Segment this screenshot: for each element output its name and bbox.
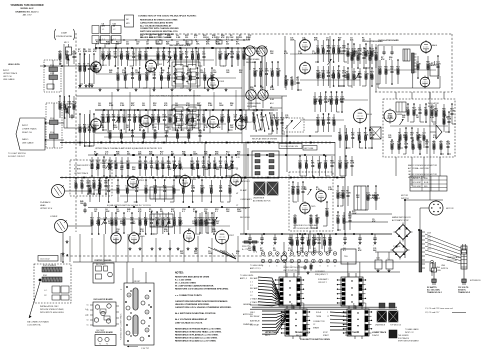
svg-text:INSTALLATION ONLY: INSTALLATION ONLY bbox=[40, 305, 59, 308]
svg-text:4.7K: 4.7K bbox=[397, 143, 402, 146]
svg-text:MODEL 64 X: MODEL 64 X bbox=[21, 7, 35, 10]
svg-text:100K: 100K bbox=[219, 105, 224, 107]
stage components: line amp cluster right bbox=[313, 91, 345, 132]
svg-text:330: 330 bbox=[348, 218, 351, 220]
svg-text:SELECTOR: SELECTOR bbox=[447, 260, 457, 262]
svg-text:UNDERSIDE: UNDERSIDE bbox=[375, 325, 386, 327]
svg-text:2.2M: 2.2M bbox=[83, 51, 88, 53]
svg-text:INPUT C#2: INPUT C#2 bbox=[405, 332, 414, 334]
svg-text:REC 2: REC 2 bbox=[296, 335, 301, 337]
wire: right vertical x242 bbox=[241, 48, 243, 142]
stage components: indicator right parts bbox=[442, 111, 452, 133]
svg-text:R104: R104 bbox=[50, 132, 54, 134]
input attenuator dashed box upper with resistors R101 R102 bbox=[44, 60, 61, 92]
svg-text:1M: 1M bbox=[74, 183, 77, 185]
harness fan into switch PB4 bbox=[330, 312, 347, 330]
svg-text:0.1: 0.1 bbox=[127, 211, 130, 213]
svg-text:1: 1 bbox=[327, 312, 328, 314]
svg-text:0.1: 0.1 bbox=[226, 39, 229, 41]
svg-text:1M: 1M bbox=[173, 163, 176, 165]
stage components: upper record amp stage 3 bbox=[156, 47, 205, 67]
svg-text:0.1: 0.1 bbox=[340, 197, 343, 199]
svg-text:4.7K: 4.7K bbox=[390, 143, 395, 146]
front lever switch assembly box bbox=[121, 262, 154, 350]
svg-text:REC/PLAY SWITCH SHOWN: REC/PLAY SWITCH SHOWN bbox=[252, 138, 278, 141]
wire: oscillator verticals 2 bbox=[352, 40, 376, 92]
tube V206 lower playback amp bbox=[183, 229, 200, 243]
svg-text:330: 330 bbox=[144, 169, 147, 171]
svg-text:100K: 100K bbox=[315, 218, 320, 220]
record head upper track bbox=[246, 46, 267, 64]
svg-text:220: 220 bbox=[138, 54, 141, 56]
svg-text:100K: 100K bbox=[105, 211, 110, 213]
svg-text:1M: 1M bbox=[338, 40, 341, 42]
svg-text:POWER SUPPLY: POWER SUPPLY bbox=[74, 165, 91, 167]
svg-text:EXTENSION: EXTENSION bbox=[470, 280, 481, 282]
svg-text:0.1: 0.1 bbox=[105, 154, 108, 156]
tube V303 line amplifier bbox=[354, 108, 373, 124]
svg-text:330: 330 bbox=[224, 54, 227, 56]
svg-text:GND 1: GND 1 bbox=[250, 312, 255, 314]
wire: osc board link downs bbox=[396, 92, 444, 99]
svg-text:2.2M: 2.2M bbox=[275, 120, 280, 122]
dashed box: power supply upper bbox=[70, 160, 112, 196]
svg-text:L 1: L 1 bbox=[102, 29, 104, 31]
svg-text:220: 220 bbox=[296, 240, 299, 242]
svg-text:R318 POS: R318 POS bbox=[242, 246, 251, 248]
svg-text:0.1: 0.1 bbox=[161, 72, 164, 74]
dashed box: FM stereo adapter connection bbox=[34, 264, 71, 303]
svg-text:330: 330 bbox=[226, 44, 229, 46]
svg-text:SHIFT SWITCH SEGMENT: SHIFT SWITCH SEGMENT bbox=[398, 341, 419, 343]
svg-text:2.2M: 2.2M bbox=[210, 75, 215, 77]
svg-text:2.2M: 2.2M bbox=[426, 64, 431, 66]
svg-text:EQUALIZATION SWITCH SHOWN IN 7: EQUALIZATION SWITCH SHOWN IN 7 1/2 POS. bbox=[107, 204, 152, 207]
svg-text:CIRCUIT 2: CIRCUIT 2 bbox=[318, 282, 327, 284]
switch contact ladder lower band bbox=[172, 105, 200, 128]
fuse: line fuse bbox=[430, 260, 442, 276]
tube V207 output bbox=[216, 229, 235, 245]
stage components: lower record amp stage 3 bbox=[151, 109, 205, 131]
svg-text:220: 220 bbox=[168, 169, 171, 171]
svg-text:0.1: 0.1 bbox=[180, 117, 183, 119]
svg-text:220: 220 bbox=[126, 188, 129, 190]
svg-text:100K: 100K bbox=[161, 220, 166, 222]
dashed outline: record board top edge bbox=[145, 34, 452, 92]
wire: record to head bus labels bbox=[206, 36, 251, 41]
tube V101 first record amplifier bbox=[91, 60, 108, 74]
svg-text:0.1: 0.1 bbox=[107, 188, 110, 190]
wire: assorted junction dots bbox=[95, 47, 420, 235]
svg-text:4.7K: 4.7K bbox=[284, 52, 289, 55]
svg-text:330: 330 bbox=[234, 117, 237, 119]
svg-text:220: 220 bbox=[149, 37, 152, 39]
label: lever switch tungsram position bbox=[283, 267, 307, 272]
svg-text:R502: R502 bbox=[43, 275, 47, 277]
svg-text:INPUT: INPUT bbox=[3, 70, 10, 72]
push button switch PB3 bbox=[281, 305, 310, 339]
svg-text:1M: 1M bbox=[230, 105, 233, 107]
caption: push button switch names bbox=[265, 331, 387, 341]
svg-text:0.1: 0.1 bbox=[194, 37, 197, 39]
voltage divider resistor chain bbox=[242, 241, 287, 261]
svg-text:2.2M: 2.2M bbox=[167, 37, 172, 39]
svg-text:330: 330 bbox=[126, 44, 129, 46]
switch contact ladder upper band bbox=[172, 62, 200, 86]
svg-text:220: 220 bbox=[228, 188, 231, 190]
switch wafer underside A bbox=[254, 182, 265, 195]
svg-text:REC AMP 2: REC AMP 2 bbox=[250, 287, 259, 290]
svg-text:MOTOR: MOTOR bbox=[446, 208, 454, 210]
svg-text:V206: V206 bbox=[195, 234, 201, 236]
svg-text:220: 220 bbox=[270, 120, 273, 122]
svg-text:EL84: EL84 bbox=[367, 114, 373, 116]
potentiometer: input level control bbox=[66, 103, 74, 128]
svg-text:LEFT LINE: LEFT LINE bbox=[304, 148, 314, 150]
label row: mid band extra values bbox=[96, 69, 242, 225]
svg-text:2.2M: 2.2M bbox=[122, 72, 127, 74]
notes side column bbox=[243, 303, 254, 326]
svg-text:PLAYBACK: PLAYBACK bbox=[40, 201, 51, 204]
wire: sub-rails playback bands bbox=[94, 163, 238, 226]
connector strip C1 pin circles row 1 bbox=[261, 252, 337, 256]
svg-text:RESISTORS INDICATED IN OHMS: RESISTORS INDICATED IN OHMS bbox=[175, 276, 210, 279]
stage components: upper record amp stage 2 bbox=[101, 47, 148, 67]
bus: harness to push-button switches (dashed) bbox=[62, 255, 310, 257]
svg-text:1M: 1M bbox=[416, 117, 419, 119]
svg-text:UPPER TRACK: UPPER TRACK bbox=[3, 72, 18, 75]
indicator triangle element bbox=[430, 125, 442, 139]
dashed board boundary vertical bbox=[75, 33, 77, 232]
svg-text:REC 1: REC 1 bbox=[265, 335, 270, 337]
svg-text:CAPACITORS INDICATED IN MICROM: CAPACITORS INDICATED IN MICROMICROFARADS bbox=[175, 300, 228, 303]
tube V105 lower record amplifier bbox=[140, 114, 157, 128]
label row: right mid extra values bbox=[292, 114, 449, 199]
svg-text:2.2M: 2.2M bbox=[276, 71, 281, 73]
svg-text:1M: 1M bbox=[410, 135, 413, 137]
svg-text:12: 12 bbox=[327, 316, 329, 318]
svg-text:4.7K: 4.7K bbox=[328, 100, 333, 103]
svg-text:1M: 1M bbox=[337, 73, 340, 75]
svg-text:UPPER TRACK: UPPER TRACK bbox=[345, 331, 359, 334]
svg-text:TO LINE LEVEL SW.: TO LINE LEVEL SW. bbox=[281, 146, 299, 148]
svg-text:1M: 1M bbox=[236, 54, 239, 56]
svg-text:330: 330 bbox=[273, 250, 276, 252]
svg-text:220: 220 bbox=[114, 220, 117, 222]
filter capacitor cans C111 C112 bbox=[375, 252, 405, 272]
stage components: below record level box bbox=[290, 233, 332, 253]
svg-text:220: 220 bbox=[102, 163, 105, 165]
bus: upper playback rail bbox=[88, 154, 335, 156]
svg-text:C3: C3 bbox=[146, 330, 148, 332]
svg-text:0.1: 0.1 bbox=[431, 65, 434, 67]
svg-text:4.7K: 4.7K bbox=[338, 162, 343, 165]
voltage selector tap fan bbox=[425, 233, 461, 265]
labels: cathode column bbox=[240, 180, 252, 219]
mains plug P2 extension bbox=[458, 244, 481, 294]
board label: oscillator board bbox=[378, 39, 399, 42]
stage components: right column parts bbox=[338, 127, 375, 176]
playback head lower track bbox=[50, 216, 68, 233]
wire: head leads bbox=[62, 191, 92, 263]
multiplex filter block grid bbox=[101, 15, 134, 48]
stage components: lower record amp stage 1 bbox=[78, 113, 96, 147]
svg-text:L 2: L 2 bbox=[113, 29, 115, 31]
svg-text:V207: V207 bbox=[229, 235, 235, 237]
tube V152 bias oscillator bbox=[420, 76, 430, 89]
svg-text:HIGH LEVEL: HIGH LEVEL bbox=[8, 64, 21, 66]
svg-text:1M: 1M bbox=[197, 117, 200, 119]
svg-text:100K: 100K bbox=[237, 211, 242, 213]
svg-text:FUSE AMP 1: FUSE AMP 1 bbox=[318, 278, 329, 281]
wire: mid vertical pair x244 x248 bbox=[236, 143, 248, 234]
svg-text:0.1: 0.1 bbox=[96, 44, 99, 46]
ground row: lower playback bbox=[129, 247, 198, 250]
wire: right vertical x=440 bbox=[439, 157, 441, 176]
svg-text:330: 330 bbox=[153, 105, 156, 107]
svg-text:100K: 100K bbox=[197, 105, 202, 107]
svg-text:0.1: 0.1 bbox=[63, 104, 66, 106]
svg-text:0.1: 0.1 bbox=[96, 163, 99, 165]
svg-text:LOWER AMPL: LOWER AMPL bbox=[240, 198, 252, 201]
svg-text:REC SOURCE IMP. 600 OHM: REC SOURCE IMP. 600 OHM bbox=[293, 228, 318, 230]
bias transformer T151 bbox=[403, 49, 410, 61]
svg-text:LINE CABLE: LINE CABLE bbox=[22, 142, 34, 145]
svg-text:RESISTANCE IN OHMS K=1000 OHMS: RESISTANCE IN OHMS K=1000 OHMS bbox=[140, 19, 178, 22]
svg-text:CATHODE 1: CATHODE 1 bbox=[240, 180, 250, 183]
svg-text:+ 25 V: + 25 V bbox=[292, 177, 298, 179]
svg-text:1M: 1M bbox=[292, 189, 295, 191]
svg-text:2.2M: 2.2M bbox=[193, 211, 198, 213]
svg-text:B+ CT8: B+ CT8 bbox=[242, 249, 248, 251]
svg-text:R102: R102 bbox=[50, 73, 54, 75]
svg-text:LOWER TRACK: LOWER TRACK bbox=[22, 128, 37, 131]
svg-text:ALL VOLTAGES MEASURED AT: ALL VOLTAGES MEASURED AT bbox=[140, 24, 172, 27]
wire: lower input feed bbox=[45, 122, 96, 141]
svg-text:MOTOR: MOTOR bbox=[401, 195, 409, 197]
svg-text:WITH INPUTS HIGH LEVEL: WITH INPUTS HIGH LEVEL bbox=[40, 312, 64, 314]
svg-text:SPARE: SPARE bbox=[313, 327, 320, 330]
svg-text:1M: 1M bbox=[80, 183, 83, 185]
svg-text:1M: 1M bbox=[162, 54, 165, 56]
erase head upper track bbox=[245, 46, 255, 56]
svg-text:100K: 100K bbox=[208, 253, 213, 255]
svg-text:0.1: 0.1 bbox=[296, 80, 299, 82]
labels: cutover frequency bbox=[315, 271, 329, 284]
svg-text:100K: 100K bbox=[220, 117, 225, 119]
svg-text:100K: 100K bbox=[256, 53, 261, 55]
svg-text:1M: 1M bbox=[136, 44, 139, 46]
svg-text:330: 330 bbox=[88, 51, 91, 53]
svg-text:4.7K: 4.7K bbox=[430, 116, 435, 119]
svg-text:C 1: C 1 bbox=[250, 281, 253, 283]
svg-text:220: 220 bbox=[202, 54, 205, 56]
svg-text:220: 220 bbox=[228, 169, 231, 171]
stage components: oscillator tank bbox=[315, 39, 347, 87]
wire: bottom harness vertical drops bbox=[70, 234, 238, 262]
svg-text:100K: 100K bbox=[253, 71, 258, 73]
svg-text:1M: 1M bbox=[140, 37, 143, 39]
svg-text:1M: 1M bbox=[219, 163, 222, 165]
svg-text:DRAWING NO. 65.37-1: DRAWING NO. 65.37-1 bbox=[15, 10, 39, 13]
svg-text:UPPER TRACK PLAYBACK AMPLIFIER: UPPER TRACK PLAYBACK AMPLIFIER EQUALIZAT… bbox=[95, 147, 163, 150]
svg-text:1M: 1M bbox=[113, 26, 116, 28]
svg-text:1M: 1M bbox=[316, 48, 319, 50]
svg-text:L 4: L 4 bbox=[250, 295, 252, 297]
svg-text:C4: C4 bbox=[128, 295, 130, 297]
label row: head area values bbox=[250, 86, 275, 91]
small boxes: record amp top trimmers bbox=[156, 40, 222, 44]
svg-text:EARLY SYNCHRONOUS MOTOR: EARLY SYNCHRONOUS MOTOR bbox=[408, 164, 438, 167]
svg-text:1M: 1M bbox=[94, 211, 97, 213]
svg-text:2-WAY: 2-WAY bbox=[61, 32, 68, 35]
wire: motor feed bbox=[405, 200, 443, 258]
svg-text:110V GREY: 110V GREY bbox=[412, 182, 422, 184]
svg-text:4.7K: 4.7K bbox=[164, 230, 169, 233]
svg-text:330: 330 bbox=[338, 135, 341, 137]
svg-text:UPPER TRACK: UPPER TRACK bbox=[74, 172, 89, 175]
labels: stop / connector c2 spare bbox=[313, 311, 329, 330]
record/play function switch S1 contacts bbox=[252, 110, 278, 143]
svg-text:1M: 1M bbox=[83, 127, 86, 129]
svg-text:100K: 100K bbox=[330, 163, 335, 165]
wire: vertical interconnects record bands bbox=[84, 48, 232, 133]
svg-text:4.7K: 4.7K bbox=[135, 187, 140, 190]
line output transformer box bbox=[354, 186, 380, 210]
svg-text:1M: 1M bbox=[191, 117, 194, 119]
svg-text:UNLESS OTHERWISE SPECIFIED.: UNLESS OTHERWISE SPECIFIED. bbox=[175, 304, 210, 306]
stage components: indicator box bottom row bbox=[390, 139, 451, 155]
label row: upper playback values bbox=[94, 151, 240, 156]
svg-text:0.1: 0.1 bbox=[180, 169, 183, 171]
stage components: indicator driver bbox=[398, 103, 436, 149]
svg-text:330: 330 bbox=[120, 163, 123, 165]
svg-text:330: 330 bbox=[202, 163, 205, 165]
svg-text:220V GREY: 220V GREY bbox=[412, 186, 422, 188]
svg-text:220: 220 bbox=[142, 105, 145, 107]
tube V151 bias oscillator bbox=[421, 40, 438, 54]
svg-text:BIAS RELAY: BIAS RELAY bbox=[250, 319, 261, 322]
label: to line level switch bbox=[279, 144, 317, 151]
svg-text:ALL VOLTAGES MEASURED AT: ALL VOLTAGES MEASURED AT bbox=[175, 318, 208, 321]
svg-text:2.2M: 2.2M bbox=[106, 44, 111, 46]
svg-text:0.1: 0.1 bbox=[182, 211, 185, 213]
svg-text:2.2M: 2.2M bbox=[123, 75, 128, 77]
svg-text:4.7K: 4.7K bbox=[187, 71, 192, 74]
notes block body text bbox=[175, 276, 232, 343]
svg-text:2.2M: 2.2M bbox=[191, 188, 196, 190]
svg-text:0.1: 0.1 bbox=[342, 218, 345, 220]
svg-text:OSCILLATOR BOARD: OSCILLATOR BOARD bbox=[378, 39, 399, 42]
stage components: mic input cluster bbox=[58, 50, 77, 65]
svg-text:330: 330 bbox=[114, 54, 117, 56]
label: to mains hum pot bbox=[250, 265, 264, 270]
svg-text:220: 220 bbox=[239, 72, 242, 74]
arrow: to connector radio bbox=[27, 282, 50, 327]
svg-text:0.1: 0.1 bbox=[172, 188, 175, 190]
svg-text:2.2M: 2.2M bbox=[190, 163, 195, 165]
label: motor switch bbox=[401, 195, 409, 200]
bus: B+ rail upper bbox=[95, 39, 250, 40]
svg-text:2.2M: 2.2M bbox=[120, 105, 125, 107]
svg-text:1M: 1M bbox=[216, 223, 219, 225]
bus: harness solid rail bbox=[73, 261, 430, 263]
wire: verticals lower mid bbox=[205, 143, 322, 249]
wire: extended mid rails bbox=[250, 96, 400, 272]
svg-text:0.1: 0.1 bbox=[370, 77, 373, 79]
svg-text:OSCILLATOR BOARD: OSCILLATOR BOARD bbox=[93, 298, 113, 301]
svg-text:LINE CABLE: LINE CABLE bbox=[3, 78, 15, 81]
wire: verticals top mid connecting bands bbox=[112, 88, 236, 110]
svg-text:2.2M: 2.2M bbox=[167, 75, 172, 77]
svg-text:C101 C102: C101 C102 bbox=[40, 259, 50, 261]
erase head lower track bbox=[246, 90, 256, 100]
svg-text:HEAD: HEAD bbox=[40, 204, 46, 207]
svg-text:0.1: 0.1 bbox=[88, 66, 91, 68]
svg-text:330: 330 bbox=[225, 163, 228, 165]
dashed box: track EQ selector bbox=[283, 115, 304, 132]
svg-text:100K: 100K bbox=[364, 74, 369, 76]
TEL output jack box bbox=[341, 249, 356, 264]
wire: rail y136 bbox=[250, 135, 332, 137]
stage components: upper record amp stage 4 bbox=[218, 47, 246, 67]
svg-text:UPPER 1/2 H: UPPER 1/2 H bbox=[40, 208, 53, 210]
svg-text:TERM: TERM bbox=[316, 316, 322, 318]
svg-text:SOLA: SOLA bbox=[316, 311, 322, 314]
svg-text:220: 220 bbox=[138, 220, 141, 222]
svg-text:100K: 100K bbox=[150, 220, 155, 222]
svg-text:M = 1,000,000 OHMS: M = 1,000,000 OHMS bbox=[175, 283, 196, 285]
svg-text:2.2M: 2.2M bbox=[206, 39, 211, 41]
push button switch PB1 upper track rec bbox=[275, 273, 304, 309]
tube V102 record amplifier bbox=[145, 59, 162, 73]
svg-text:BOARD: BOARD bbox=[74, 167, 82, 170]
svg-text:220: 220 bbox=[110, 220, 113, 222]
svg-text:1M: 1M bbox=[362, 40, 365, 42]
svg-text:INPUT: INPUT bbox=[22, 125, 29, 127]
indicator transformer box bbox=[396, 102, 406, 112]
svg-text:VIA CONNECTOR RADIO: VIA CONNECTOR RADIO bbox=[27, 321, 50, 324]
svg-text:4.7K: 4.7K bbox=[72, 103, 77, 106]
wire: record head connect rail bbox=[250, 48, 265, 96]
svg-text:CONNECTOR: CONNECTOR bbox=[313, 321, 325, 323]
electrolytic capacitor bank with grounds bbox=[248, 234, 377, 252]
wire: upper input bus bbox=[40, 65, 96, 67]
svg-text:100K: 100K bbox=[165, 127, 170, 129]
label: to light switch socket circuit bbox=[8, 153, 26, 158]
svg-text:C2: C2 bbox=[146, 312, 148, 314]
label row: lower playback fill values bbox=[116, 228, 217, 233]
wire: sub-rails right mid bbox=[300, 100, 448, 126]
stage components: lower record amp stage 2 bbox=[101, 109, 143, 131]
svg-text:330: 330 bbox=[132, 54, 135, 56]
svg-text:4.7K: 4.7K bbox=[171, 210, 176, 213]
svg-text:220: 220 bbox=[116, 44, 119, 46]
svg-text:2.2M: 2.2M bbox=[412, 110, 417, 112]
line voltage selector strip bbox=[447, 246, 467, 269]
svg-text:220: 220 bbox=[109, 72, 112, 74]
stage components: upper playback bottom row bbox=[88, 179, 231, 203]
svg-text:UPPER TRACK: UPPER TRACK bbox=[265, 331, 279, 334]
stage components: lower playback stage row bbox=[90, 211, 216, 235]
svg-text:0.1: 0.1 bbox=[215, 211, 218, 213]
svg-text:220: 220 bbox=[98, 105, 101, 107]
svg-text:UNDERSIDE: UNDERSIDE bbox=[253, 198, 265, 200]
small parts above switches bbox=[299, 263, 312, 275]
svg-text:2.2M: 2.2M bbox=[100, 127, 105, 129]
svg-text:LOWER TRACK: LOWER TRACK bbox=[296, 331, 311, 334]
svg-text:TANDBERG TAPE RECORDER: TANDBERG TAPE RECORDER bbox=[10, 4, 44, 7]
